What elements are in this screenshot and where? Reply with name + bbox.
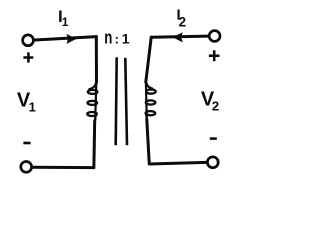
coil L2 loop 1 bbox=[146, 90, 156, 94]
arrow I2 current direction (points left) bbox=[173, 32, 183, 42]
wire left vertical lower bbox=[92, 121, 96, 166]
coil L2 left-side link wire bbox=[145, 83, 148, 120]
wire top-right horizontal bbox=[151, 36, 208, 37]
wire bottom-right horizontal bbox=[149, 162, 206, 164]
svg-text:n: n bbox=[104, 28, 112, 49]
coil L2 loop 3 bbox=[146, 111, 156, 115]
wire right vertical lower bbox=[147, 120, 149, 163]
wire bottom-left horizontal bbox=[32, 166, 94, 169]
coil L1 right-side link wire bbox=[95, 84, 96, 121]
coil L1 bottom hook bbox=[95, 115, 96, 121]
minus sign bottom-left bbox=[23, 142, 30, 145]
plus sign top-right bbox=[209, 50, 220, 61]
coil L1 primary winding top hook bbox=[89, 80, 96, 90]
wire left vertical upper bbox=[95, 37, 98, 83]
core line right bbox=[125, 58, 127, 145]
wire top-left horizontal bbox=[35, 37, 97, 40]
coil L2 loop 2 bbox=[146, 100, 156, 104]
svg-text:2: 2 bbox=[179, 15, 187, 30]
minus sign bottom-right bbox=[210, 137, 217, 140]
terminal circle bottom-right (port 2 -) bbox=[207, 157, 218, 168]
svg-text:2: 2 bbox=[212, 99, 219, 114]
svg-text:1: 1 bbox=[29, 100, 36, 115]
coil L2 bottom hook bbox=[145, 115, 148, 120]
svg-text::: : bbox=[115, 31, 119, 46]
core line left bbox=[116, 57, 117, 145]
plus sign top-left bbox=[23, 52, 33, 62]
coil L2 secondary winding top hook bbox=[146, 80, 153, 89]
coil L1 loop 1 bbox=[88, 90, 98, 94]
svg-text:1: 1 bbox=[122, 30, 130, 46]
wire right vertical upper bbox=[146, 37, 151, 82]
coil L1 loop 2 bbox=[88, 101, 98, 105]
coil L1 loop 3 bbox=[87, 112, 97, 116]
svg-text:1: 1 bbox=[62, 15, 69, 29]
arrow I1 current direction (points right) bbox=[67, 34, 77, 44]
terminal circle top-left (port 1 +) bbox=[23, 35, 34, 46]
terminal circle bottom-left (port 1 -) bbox=[21, 162, 32, 173]
terminal circle top-right (port 2 +) bbox=[209, 31, 220, 42]
